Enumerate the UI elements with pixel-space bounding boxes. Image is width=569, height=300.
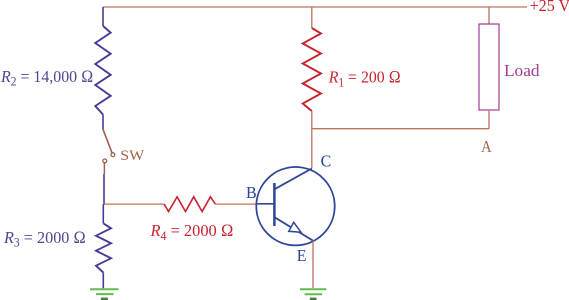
svg-text:+25 V: +25 V <box>530 0 569 15</box>
svg-text:E: E <box>297 245 307 265</box>
svg-text:C: C <box>321 151 332 171</box>
svg-text:SW: SW <box>120 147 144 164</box>
svg-text:Load: Load <box>504 61 540 80</box>
svg-text:A: A <box>481 138 492 156</box>
svg-text:B: B <box>246 182 257 202</box>
